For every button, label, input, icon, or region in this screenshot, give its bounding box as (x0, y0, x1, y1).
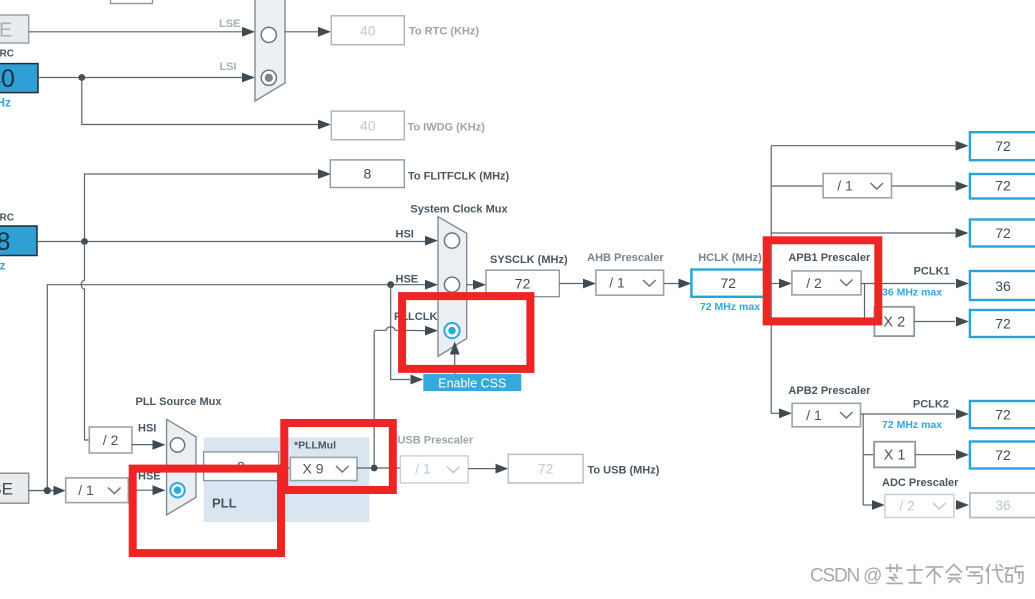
svg-text:40: 40 (0, 65, 15, 93)
wire APB1 to PCLK1 box (861, 279, 969, 289)
wire ADC to box8 (956, 500, 969, 510)
wire LSE to mux (29, 27, 255, 37)
APB1 Prescaler dropdown /2 (792, 271, 861, 295)
svg-text:PLL Source Mux: PLL Source Mux (136, 396, 223, 408)
svg-text:HSI: HSI (396, 228, 414, 240)
wire HSE block to div1 (29, 486, 66, 496)
svg-text:To IWDG (KHz): To IWDG (KHz) (408, 121, 486, 133)
svg-text:/ 1: / 1 (806, 407, 822, 423)
svg-text:36 MHz max: 36 MHz max (882, 287, 942, 299)
To RTC value box (331, 16, 404, 45)
svg-text:LSE: LSE (219, 18, 240, 30)
svg-text:X 2: X 2 (883, 315, 905, 331)
output box6 PCLK2 72 (970, 401, 1035, 428)
radio HSE (open) (444, 277, 459, 292)
red highlight rect PLL/HSE (133, 469, 281, 553)
wire HCLK to APB1 (765, 279, 792, 289)
svg-text:Enable CSS: Enable CSS (438, 376, 506, 390)
wire HSI down to PLL div2 (hop over HSE wire) (81, 242, 89, 441)
svg-text:72: 72 (995, 225, 1011, 241)
wire HSI to FLITF (85, 169, 332, 241)
wire X2 to box5 (914, 317, 969, 327)
wire HSI main (37, 236, 438, 246)
svg-text:/ 2: / 2 (806, 275, 822, 291)
PLL block background (204, 438, 370, 523)
USB Prescaler dropdown /1 (grayed) (400, 456, 468, 483)
radio LSI (selected) (261, 70, 276, 85)
svg-text:AHB Prescaler: AHB Prescaler (587, 252, 664, 264)
PLL input value box (204, 452, 279, 481)
svg-text:36: 36 (995, 278, 1011, 294)
svg-text:8: 8 (364, 166, 372, 182)
svg-text:KHz: KHz (0, 96, 11, 110)
svg-text:PCLK2: PCLK2 (913, 399, 949, 411)
svg-text:APB1 Prescaler: APB1 Prescaler (788, 252, 871, 264)
svg-text:72 MHz max: 72 MHz max (700, 301, 760, 313)
node HSE source junction (44, 487, 51, 494)
wire prediv to PLL mux (128, 485, 165, 495)
RTC clock mux (255, 0, 285, 101)
svg-text:8 MHz: 8 MHz (0, 259, 6, 273)
svg-text:X 9: X 9 (302, 461, 323, 477)
watermark char zhi (886, 565, 902, 584)
HSE prediv dropdown /1 (66, 478, 129, 503)
node HSI junction (81, 238, 88, 245)
node LSI branch (78, 74, 85, 81)
svg-text:72: 72 (995, 407, 1011, 423)
wire mux to RTC box (285, 27, 331, 37)
svg-text:72: 72 (995, 316, 1011, 332)
watermark char shi (907, 565, 922, 583)
HSE oscillator block (0, 473, 29, 503)
output box1 72 (970, 132, 1035, 160)
svg-text:72: 72 (995, 178, 1011, 194)
radio HSI (open) (444, 233, 459, 248)
node HSE junction (387, 281, 394, 288)
red highlight rect PLLMul (284, 423, 393, 490)
output box7 72 (970, 442, 1035, 469)
svg-text:/ 1: / 1 (78, 482, 94, 498)
AHB Prescaler dropdown (596, 270, 664, 295)
svg-text:HSI: HSI (138, 423, 156, 435)
red highlight rect APB1 (767, 240, 879, 321)
Enable CSS button (423, 374, 521, 391)
wire mux to SYSCLK (467, 280, 486, 290)
svg-text:72: 72 (721, 275, 737, 291)
svg-text:PLL: PLL (212, 496, 237, 511)
svg-text:USB Prescaler: USB Prescaler (398, 435, 475, 447)
svg-text:/ 2: / 2 (899, 498, 915, 514)
LSE oscillator block (0, 15, 29, 43)
HCLK value box (blue border) (691, 270, 765, 297)
radio LSE (open) (261, 27, 276, 42)
svg-text:72: 72 (515, 276, 531, 292)
HSI RC 8 block (0, 226, 37, 256)
wire PLL box to PLLMul (279, 467, 291, 469)
svg-text:/ 2: / 2 (103, 432, 119, 448)
svg-text:72: 72 (995, 447, 1011, 463)
wire USB prescaler to USB box (468, 464, 508, 474)
svg-text:/ 1: / 1 (415, 461, 431, 477)
wire row3 to box3 (771, 228, 968, 238)
radio HSI PLL (open) (170, 438, 184, 452)
APB2 Prescaler dropdown /1 (792, 403, 860, 427)
LSI RC 40 block (0, 64, 38, 93)
svg-text:LSI RC: LSI RC (0, 48, 14, 59)
svg-text:HCLK (MHz): HCLK (MHz) (698, 252, 762, 264)
svg-text:40: 40 (360, 117, 376, 133)
output box3 72 (970, 220, 1035, 247)
svg-text:To FLITFCLK (MHz): To FLITFCLK (MHz) (408, 170, 510, 182)
wire div2 to PLL mux (132, 440, 166, 450)
wire LSI to mux (38, 73, 255, 83)
svg-text:36: 36 (995, 497, 1011, 513)
wire X1 to box7 (915, 450, 969, 460)
wire row1 to box1 (771, 141, 968, 151)
svg-text:CSDN @: CSDN @ (810, 566, 881, 587)
svg-text:HSE: HSE (0, 480, 13, 499)
X2 multiplier box (874, 307, 914, 336)
ADC Prescaler dropdown /2 (grayed) (885, 495, 954, 518)
SYSCLK value box (486, 270, 559, 297)
svg-text:LSI: LSI (220, 61, 237, 73)
output box2 72 (970, 174, 1035, 199)
wire AHB to HCLK (664, 279, 692, 289)
radio HSE PLL (selected blue) (170, 483, 184, 497)
X1 multiplier box (874, 442, 915, 468)
output box5 72 (970, 310, 1035, 337)
radio PLLCLK (selected blue) (444, 323, 459, 338)
watermark CSDN (810, 565, 1023, 587)
partial box top (111, 0, 153, 4)
wire PLLCLK into mux (hop over CSS wire) (374, 326, 438, 468)
svg-text:40: 40 (360, 22, 376, 38)
wire to X1 (863, 454, 874, 456)
wire APB2 to PCLK2 box (861, 409, 970, 419)
wire HSE main (47, 280, 438, 491)
HSI div2 box (89, 427, 132, 453)
wire APB1 branch to X2 (865, 284, 875, 322)
svg-text:*PLLMul: *PLLMul (294, 440, 336, 452)
svg-text:72: 72 (538, 461, 554, 477)
svg-text:To USB (MHz): To USB (MHz) (588, 464, 660, 476)
wire HSE to Enable CSS (391, 285, 424, 385)
svg-text:APB2 Prescaler: APB2 Prescaler (788, 385, 871, 397)
svg-text:X 1: X 1 (884, 448, 906, 464)
wire row2 to box2 (892, 181, 969, 191)
watermark char ma (1005, 566, 1023, 583)
svg-text:System Clock Mux: System Clock Mux (410, 204, 508, 216)
output box8 ADC 36 (grayed) (970, 493, 1035, 518)
row2 divider dropdown /1 (823, 174, 891, 198)
svg-text:HSE: HSE (396, 274, 419, 286)
svg-text:PCLK1: PCLK1 (914, 266, 950, 278)
watermark char hui (946, 565, 961, 583)
watermark char xie (967, 567, 982, 583)
svg-text:72 MHz max: 72 MHz max (882, 419, 942, 431)
svg-text:/ 1: / 1 (609, 275, 625, 291)
wire HCLK trunk vertical (770, 146, 772, 414)
red highlight rect System Clock Mux (402, 296, 530, 369)
svg-text:/ 1: / 1 (837, 178, 853, 194)
PLL Source Mux body (167, 419, 196, 515)
wire APB2 branch vertical (862, 414, 864, 505)
svg-text:ADC Prescaler: ADC Prescaler (882, 477, 959, 489)
arrow CSS up into mux (450, 342, 460, 374)
wire SYSCLK to AHB (559, 279, 596, 289)
watermark char bu (926, 567, 943, 584)
node PLLCLK junction (371, 465, 378, 472)
svg-text:HSI RC: HSI RC (0, 212, 14, 223)
To FLITFCLK value box (330, 160, 404, 188)
svg-text:To RTC (KHz): To RTC (KHz) (409, 25, 479, 37)
svg-text:8: 8 (0, 228, 10, 256)
wire PLLMul out (357, 467, 400, 469)
wire LSI to IWDG (82, 78, 331, 130)
svg-text:SYSCLK (MHz): SYSCLK (MHz) (490, 254, 568, 266)
To USB value box (grayed) (508, 454, 583, 483)
svg-text:LSE: LSE (0, 20, 12, 42)
svg-text:72: 72 (995, 138, 1011, 154)
wire APB2 feed (771, 408, 792, 418)
PLLMul dropdown X9 (290, 457, 357, 480)
output box4 PCLK1 36 (970, 271, 1035, 300)
watermark char dai (986, 565, 1003, 584)
To IWDG value box (331, 111, 404, 140)
wire row2 to divider (771, 185, 823, 187)
wire to ADC prescaler (863, 500, 885, 510)
System Clock Mux body (438, 217, 467, 357)
